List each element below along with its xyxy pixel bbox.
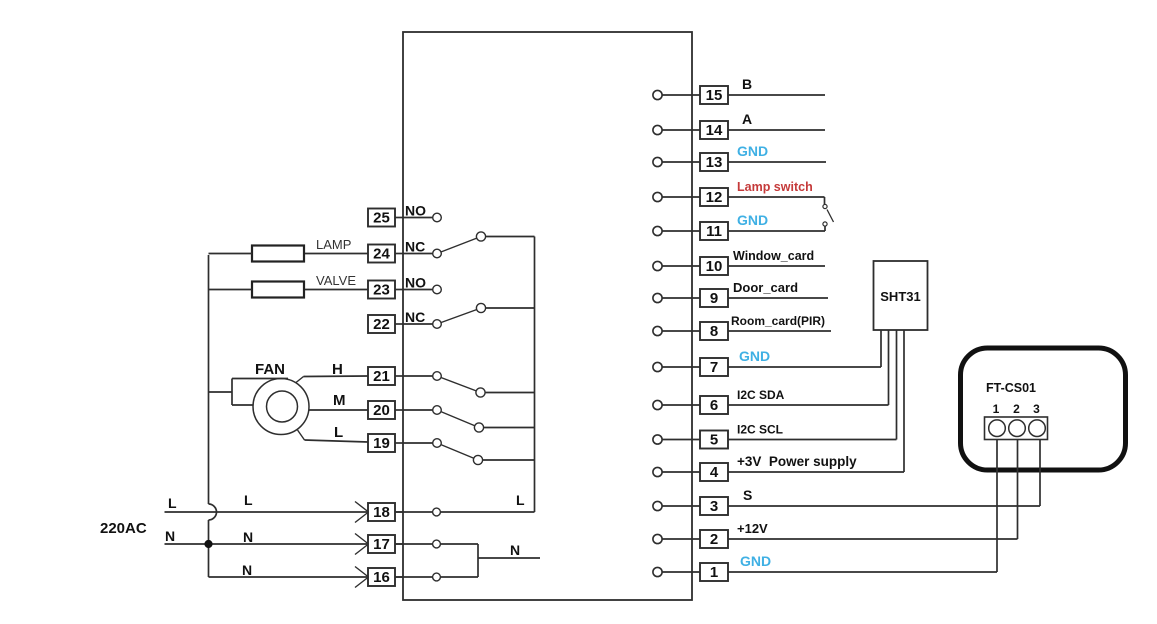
svg-text:20: 20: [373, 402, 390, 419]
svg-text:16: 16: [373, 569, 390, 586]
svg-text:8: 8: [710, 323, 718, 340]
svg-text:FT-CS01: FT-CS01: [986, 381, 1036, 395]
svg-text:+3V Power supply: +3V Power supply: [737, 454, 857, 469]
svg-text:VALVE: VALVE: [316, 273, 356, 288]
svg-text:1: 1: [993, 402, 1000, 416]
svg-text:I2C SDA: I2C SDA: [737, 388, 785, 402]
svg-text:N: N: [510, 542, 520, 558]
svg-text:GND: GND: [740, 553, 771, 569]
svg-text:23: 23: [373, 282, 390, 299]
svg-text:21: 21: [373, 368, 390, 385]
svg-text:10: 10: [706, 258, 723, 275]
svg-text:NO: NO: [405, 275, 426, 291]
svg-text:I2C SCL: I2C SCL: [737, 423, 783, 437]
svg-text:GND: GND: [737, 143, 768, 159]
svg-text:2: 2: [1013, 402, 1020, 416]
svg-text:L: L: [244, 492, 253, 508]
svg-text:24: 24: [373, 246, 390, 263]
svg-text:M: M: [333, 392, 346, 409]
svg-text:Window_card: Window_card: [733, 249, 814, 263]
svg-text:GND: GND: [737, 212, 768, 228]
svg-text:GND: GND: [739, 348, 770, 364]
svg-text:B: B: [742, 76, 752, 92]
svg-text:Door_card: Door_card: [733, 280, 798, 295]
svg-text:N: N: [242, 562, 252, 578]
svg-text:2: 2: [710, 531, 718, 548]
svg-text:5: 5: [710, 432, 718, 449]
svg-text:6: 6: [710, 397, 718, 414]
svg-text:LAMP: LAMP: [316, 237, 351, 252]
svg-text:7: 7: [710, 359, 718, 376]
svg-text:Room_card(PIR): Room_card(PIR): [731, 314, 825, 328]
svg-text:N: N: [165, 528, 175, 544]
svg-text:18: 18: [373, 504, 390, 521]
svg-text:FAN: FAN: [255, 361, 285, 378]
svg-text:11: 11: [706, 223, 722, 240]
svg-text:1: 1: [710, 564, 718, 581]
svg-text:22: 22: [373, 316, 390, 333]
svg-text:13: 13: [706, 154, 723, 171]
svg-text:L: L: [516, 492, 525, 508]
svg-text:A: A: [742, 111, 752, 127]
svg-text:NC: NC: [405, 239, 425, 255]
svg-text:Lamp switch: Lamp switch: [737, 180, 813, 194]
svg-text:NC: NC: [405, 309, 425, 325]
svg-text:N: N: [243, 529, 253, 545]
svg-text:3: 3: [1033, 402, 1040, 416]
svg-text:H: H: [332, 361, 343, 378]
svg-text:12: 12: [706, 189, 723, 206]
svg-text:15: 15: [706, 87, 723, 104]
svg-text:NO: NO: [405, 203, 426, 219]
svg-text:L: L: [168, 495, 177, 511]
svg-text:3: 3: [710, 498, 718, 515]
svg-text:14: 14: [706, 122, 723, 139]
svg-text:9: 9: [710, 290, 718, 307]
svg-text:220AC: 220AC: [100, 520, 147, 537]
svg-text:25: 25: [373, 210, 390, 227]
svg-text:L: L: [334, 424, 343, 441]
svg-text:4: 4: [710, 464, 719, 481]
svg-text:+12V: +12V: [737, 521, 768, 536]
svg-text:SHT31: SHT31: [880, 289, 920, 304]
svg-text:17: 17: [373, 536, 390, 553]
svg-text:19: 19: [373, 435, 390, 452]
svg-text:S: S: [743, 487, 752, 503]
